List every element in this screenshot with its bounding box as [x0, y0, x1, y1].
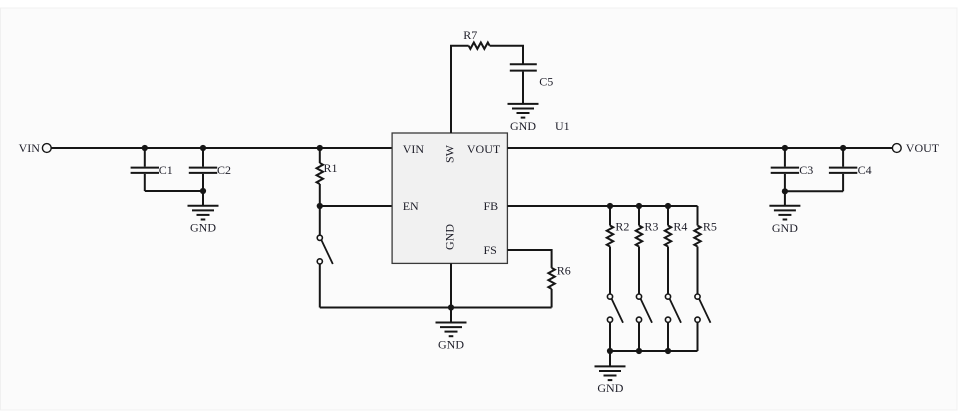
svg-text:C1: C1 — [159, 163, 173, 177]
junction VOUT at C4 — [840, 145, 846, 151]
svg-text:R4: R4 — [673, 219, 687, 233]
ground output caps — [769, 191, 800, 219]
svg-text:VOUT: VOUT — [467, 142, 501, 156]
wire C3-C4 bottom — [785, 190, 843, 192]
svg-text:C2: C2 — [217, 163, 231, 177]
resistor R7 — [469, 43, 490, 49]
svg-text:C4: C4 — [858, 163, 872, 177]
resistor R4 — [665, 206, 671, 294]
switch R2 — [607, 294, 623, 351]
svg-text:VIN: VIN — [19, 141, 41, 155]
junction C3 ground — [782, 188, 788, 194]
junction VIN rail at R1 — [317, 145, 323, 151]
wire feedback bottom rail — [610, 350, 698, 352]
switch R5 — [695, 294, 711, 351]
node VOUT terminal — [892, 144, 901, 153]
wire FS to R6 — [507, 250, 551, 268]
resistor R2 — [607, 206, 613, 294]
svg-text:FS: FS — [484, 243, 497, 257]
svg-text:GND: GND — [438, 337, 464, 351]
ground C5 — [508, 104, 539, 118]
junction VIN rail at C2 — [200, 145, 206, 151]
wire FB rail — [507, 205, 697, 207]
capacitor C1 — [131, 148, 159, 191]
junction C2 ground — [200, 188, 206, 194]
node VIN terminal — [42, 144, 51, 153]
svg-text:VOUT: VOUT — [906, 141, 940, 155]
junction FB at R2 — [607, 203, 613, 209]
svg-text:R6: R6 — [557, 263, 571, 277]
svg-text:U1: U1 — [555, 119, 570, 133]
svg-text:GND: GND — [510, 119, 536, 133]
resistor R5 — [694, 206, 700, 294]
junction FB at R3 — [636, 203, 642, 209]
svg-text:C5: C5 — [539, 74, 553, 88]
svg-text:R1: R1 — [324, 161, 338, 175]
capacitor C2 — [189, 148, 217, 191]
resistor R3 — [636, 206, 642, 294]
switch enable — [317, 206, 333, 308]
wire C1-C2 bottom — [145, 190, 203, 192]
wire U1 GND pin to rail — [450, 263, 452, 307]
junction VIN rail at C1 — [142, 145, 148, 151]
ground feedback bank — [595, 351, 626, 380]
wire VOUT rail — [507, 147, 892, 149]
svg-text:GND: GND — [772, 221, 798, 235]
svg-text:SW: SW — [443, 144, 457, 163]
resistor R6 — [548, 268, 554, 308]
capacitor C4 — [829, 148, 857, 191]
junction VOUT at C3 — [782, 145, 788, 151]
capacitor C3 — [771, 148, 799, 191]
svg-text:GND: GND — [190, 220, 216, 234]
svg-text:R5: R5 — [703, 219, 717, 233]
svg-text:GND: GND — [597, 381, 623, 395]
svg-text:C3: C3 — [799, 163, 813, 177]
wire R7 to C5 — [490, 46, 523, 64]
resistor R1 — [317, 148, 323, 206]
wire VIN rail — [51, 147, 392, 149]
svg-text:R2: R2 — [615, 219, 629, 233]
junction center ground rail — [448, 304, 454, 310]
junction FB at R4 — [665, 203, 671, 209]
wire SW pin up to R7 — [451, 46, 469, 133]
switch R4 — [665, 294, 681, 351]
ground center — [436, 308, 467, 337]
switch R3 — [636, 294, 652, 351]
wire EN to U1 — [320, 205, 392, 207]
capacitor C5 — [510, 64, 537, 104]
junction rail at R3 — [636, 348, 642, 354]
junction rail at R4 — [665, 348, 671, 354]
IC U1 body — [392, 133, 507, 263]
svg-text:FB: FB — [484, 199, 499, 213]
ground input caps — [188, 191, 219, 220]
junction rail at R2 ground — [607, 348, 613, 354]
svg-text:VIN: VIN — [403, 142, 425, 156]
junction R1 EN — [317, 203, 323, 209]
svg-text:EN: EN — [403, 199, 419, 213]
wire bottom rail (EN switch to R6) — [320, 307, 552, 309]
svg-text:R3: R3 — [644, 219, 658, 233]
svg-text:R7: R7 — [463, 28, 477, 42]
svg-text:GND: GND — [443, 224, 457, 250]
